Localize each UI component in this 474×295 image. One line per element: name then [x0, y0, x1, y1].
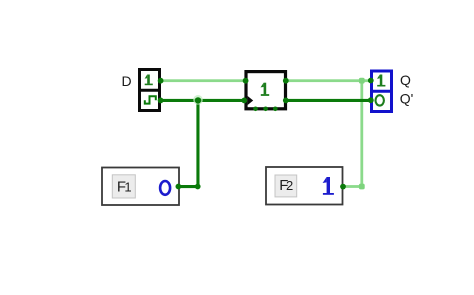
pin: flip-flop bottom pin 2 — [263, 107, 268, 112]
clock icon in input bottom cell (green step) — [145, 96, 156, 103]
node: F2 output pin — [340, 184, 346, 190]
node: input box clock output pin — [158, 98, 164, 104]
node: F1 output pin — [176, 184, 182, 190]
wire: F1 box to corner (dark green) — [178, 185, 198, 188]
input stack box (D value + clock) — [140, 70, 160, 111]
F2 button box — [266, 167, 343, 205]
svg-text:1: 1 — [124, 179, 131, 194]
digit 1 in Q cell (green) — [377, 75, 385, 87]
svg-text:Q': Q' — [400, 90, 414, 106]
digit 1 in input top cell (green) — [145, 75, 153, 86]
pin: flip-flop bottom pin 3 — [273, 107, 278, 112]
svg-text:D: D — [122, 73, 132, 89]
digit 0 in Q' cell (green) — [376, 95, 384, 105]
wire: flip-flop Q' output to output box (dark green, value 0) — [286, 99, 371, 102]
node: output box Q input pin — [368, 78, 374, 84]
svg-text:Q: Q — [400, 72, 411, 88]
wire: vertical from clock row down to F1 (dark green) — [196, 100, 199, 186]
wire: clock row horizontal (dark green, value 0) — [161, 99, 246, 102]
F2 key cap — [275, 175, 297, 197]
wire: D input to flip-flop (light green, value 1) — [161, 79, 247, 82]
junction square at F2 corner (light green) — [359, 184, 365, 190]
F1 key cap — [112, 175, 135, 198]
node: flip-flop Q' output pin — [283, 98, 289, 104]
junction dot on clock row — [195, 97, 201, 103]
F1 value 0 (blue) — [160, 181, 170, 195]
wire: F2 to Q vertical (light green, value 1) — [360, 81, 363, 187]
pin: flip-flop bottom pin 1 — [253, 107, 258, 112]
node: output box Q' input pin — [368, 97, 374, 103]
junction halo — [193, 95, 203, 105]
wire: F2 box to corner (light green) — [343, 185, 362, 188]
node: input box D output pin — [158, 78, 164, 84]
F1 button box — [102, 168, 179, 206]
node: flip-flop clock input pin — [241, 98, 247, 104]
F2 value 1 (blue digit) — [323, 177, 334, 195]
wire: flip-flop Q output to output box (light green, value 1) — [286, 79, 371, 82]
node: flip-flop D input pin — [243, 78, 249, 84]
digit 1 in flip-flop (green, state) — [261, 83, 270, 96]
corner dot at F1 wire — [195, 184, 201, 190]
node: flip-flop Q output pin — [283, 78, 289, 84]
junction square on Q wire (light green) — [359, 78, 365, 84]
svg-text:2: 2 — [286, 178, 293, 193]
output stack box (blue, Q / Q') — [372, 71, 392, 112]
clock wedge — [248, 96, 254, 105]
flip-flop box — [246, 72, 286, 109]
